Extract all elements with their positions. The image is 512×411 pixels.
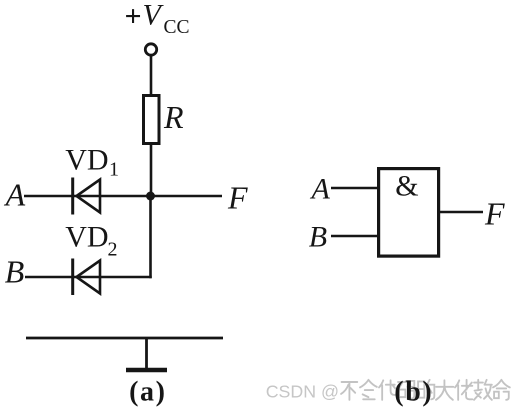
diode VD1	[73, 178, 100, 215]
wire A to F	[24, 195, 222, 198]
svg-text:(a): (a)	[129, 377, 166, 408]
ground bar	[126, 368, 167, 373]
svg-text:+: +	[125, 0, 142, 33]
watermark chinese glyphs	[341, 380, 510, 400]
hanzi ming	[493, 380, 510, 400]
svg-text:B: B	[5, 253, 25, 289]
wire B row	[25, 276, 152, 279]
hanzi dai	[379, 380, 396, 399]
hanzi de	[418, 380, 434, 399]
wire resistor to node	[150, 144, 153, 197]
label VD1	[65, 144, 119, 181]
svg-text:F: F	[484, 195, 505, 231]
hanzi ma	[398, 381, 414, 399]
svg-text:F: F	[227, 180, 248, 216]
svg-text:R: R	[163, 99, 184, 135]
hanzi bu	[341, 382, 357, 400]
wire node to B row	[149, 196, 152, 278]
hanzi da	[436, 380, 453, 399]
svg-text:VD: VD	[65, 144, 108, 177]
ground rail	[26, 337, 223, 340]
svg-text:(b): (b)	[394, 377, 433, 408]
and-gate U1 box	[379, 169, 439, 257]
wire B input b	[331, 235, 377, 238]
hanzi jiu	[474, 380, 492, 400]
node junction dot	[146, 192, 155, 201]
svg-text:A: A	[310, 173, 331, 206]
svg-text:B: B	[309, 220, 327, 253]
wire F output b	[440, 211, 483, 214]
svg-text:CC: CC	[164, 17, 190, 38]
svg-text:A: A	[4, 177, 26, 213]
svg-text:&: &	[395, 170, 418, 203]
diode VD2	[73, 259, 100, 296]
label +Vcc	[125, 0, 190, 38]
terminal Vcc	[145, 44, 156, 55]
svg-text:VD: VD	[65, 221, 108, 254]
label VD2	[65, 221, 117, 261]
svg-text:CSDN @: CSDN @	[266, 381, 339, 401]
hanzi hui	[360, 380, 377, 399]
svg-text:2: 2	[108, 239, 118, 261]
svg-text:1: 1	[109, 159, 119, 181]
ground stub	[145, 338, 148, 368]
hanzi lao	[455, 380, 472, 400]
wire Vcc to resistor	[150, 56, 153, 96]
wire A input b	[331, 187, 377, 190]
svg-text:V: V	[143, 0, 165, 32]
resistor R	[144, 96, 160, 144]
